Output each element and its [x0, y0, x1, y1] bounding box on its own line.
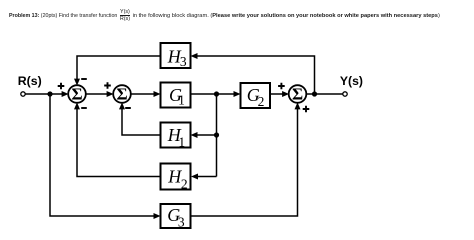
wire node A down to G3: [50, 94, 155, 216]
arrowhead into G2: [234, 91, 241, 97]
arrowhead into summer2 from bottom: [119, 102, 125, 109]
arrowhead into H2: [191, 174, 198, 180]
block H1: [161, 123, 191, 150]
arrowhead into summer1 from top: [74, 79, 80, 86]
svg-text:1: 1: [178, 135, 185, 150]
arrowhead into G3: [154, 213, 161, 219]
svg-text:3: 3: [178, 214, 185, 229]
wire H1 to summer2 bottom: [122, 108, 161, 135]
output terminal: [343, 92, 347, 96]
wire output node up and into H3: [197, 56, 315, 94]
svg-text:Σ: Σ: [71, 85, 82, 104]
wire H2 to summer1 bottom: [77, 108, 161, 177]
sign plus summer3 left: [278, 83, 285, 90]
arrowhead into summer1 from bottom: [74, 102, 80, 109]
sign minus summer1 top: [81, 78, 87, 80]
sign plus summer3 bottom: [303, 106, 310, 113]
wire G1 to G2: [191, 93, 236, 95]
node A: [47, 91, 52, 96]
svg-text:1: 1: [178, 92, 185, 107]
svg-text:Σ: Σ: [116, 85, 127, 104]
wire G3 to summer3 bottom: [191, 108, 298, 216]
wire G2 to summer3: [270, 93, 284, 95]
wire junction into H2: [198, 176, 217, 178]
block G1: [161, 83, 191, 108]
wire H3 to summer1 top: [77, 56, 161, 80]
wire junction into H1: [197, 134, 217, 136]
node C: [312, 91, 317, 96]
block G2: [241, 83, 271, 109]
svg-text:R(s): R(s): [18, 74, 42, 88]
svg-text:Y(s): Y(s): [340, 74, 363, 88]
arrowhead into G1: [154, 91, 161, 97]
arrowhead into H1: [191, 132, 198, 138]
block G3: [161, 204, 191, 229]
block H3: [161, 43, 191, 69]
sign minus summer1 bottom: [81, 107, 87, 109]
node B: [214, 91, 219, 96]
wire summer2 to G1: [131, 93, 156, 95]
arrowhead into summer2: [107, 91, 114, 97]
wire input to summer1: [25, 93, 63, 95]
sign plus summer1 left: [58, 83, 65, 90]
summer 3: [289, 85, 307, 104]
sign minus summer2 bottom: [125, 107, 131, 109]
summer 1: [68, 85, 86, 104]
sign plus summer2 left: [104, 82, 111, 89]
svg-text:Σ: Σ: [292, 85, 303, 104]
arrowhead into summer3 from bottom: [295, 102, 301, 109]
svg-text:2: 2: [181, 176, 188, 191]
svg-text:3: 3: [180, 54, 187, 69]
svg-text:2: 2: [258, 94, 265, 109]
input terminal: [21, 92, 25, 96]
block H2: [161, 164, 191, 192]
arrowhead into summer3: [282, 91, 289, 97]
summer 2: [113, 85, 131, 104]
wire summer3 to output terminal: [306, 93, 343, 95]
node junction H1 branch: [214, 132, 219, 137]
wire node B down to H2 level: [216, 94, 218, 177]
arrowhead into summer1: [62, 91, 69, 97]
arrowhead into H3: [191, 53, 198, 59]
problem statement text: [9, 8, 440, 23]
wire summer1 to summer2: [86, 93, 109, 95]
